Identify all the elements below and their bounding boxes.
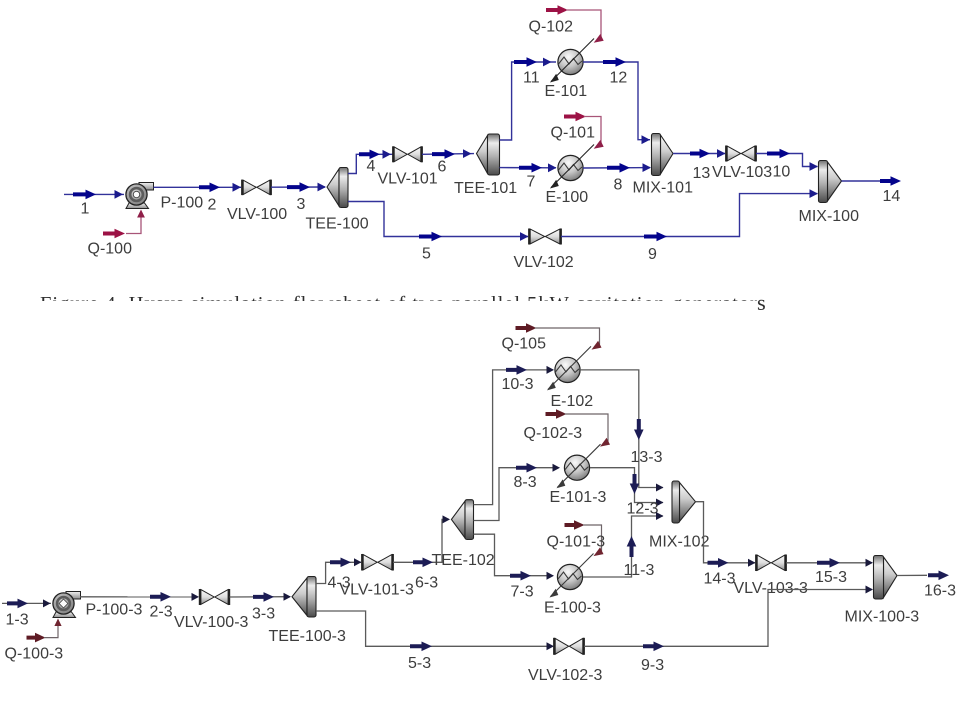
svg-text:E-102: E-102 (551, 393, 594, 410)
wire stream 16-3 out of MIX-100-3 (897, 574, 927, 576)
stream 13-3 arrowhead (656, 484, 664, 492)
stream 3 arrow (287, 182, 310, 192)
svg-text:Q-100-3: Q-100-3 (5, 646, 64, 663)
stream 6 arrowhead (463, 149, 472, 158)
stream 7-3 arrow (510, 571, 531, 581)
svg-text:7: 7 (527, 174, 536, 191)
stream 8-3 arrowhead (553, 464, 561, 472)
stream 4 arrowhead (383, 150, 392, 159)
svg-text:10-3: 10-3 (502, 376, 534, 393)
svg-text:E-100-3: E-100-3 (544, 600, 601, 617)
wire stream 7-3 TEE-102 to E-100-3 (474, 534, 554, 576)
stream 5 arrowhead (520, 232, 529, 241)
wire stream 5 TEE-100 to VLV-102 (348, 202, 528, 237)
valve VLV-103-3 (757, 555, 771, 570)
stream 3-3 arrowhead (284, 593, 292, 601)
wire stream 9 VLV-102 to MIX-100 (561, 194, 818, 237)
valve VLV-102 (530, 229, 545, 244)
stream 13 arrow (690, 149, 710, 159)
energy stream Q-101 (564, 112, 586, 122)
wire stream 8 E-100 to MIX-101 (583, 167, 650, 169)
svg-text:VLV-101-3: VLV-101-3 (340, 582, 415, 599)
svg-text:7-3: 7-3 (511, 584, 534, 601)
stream 13 arrowhead (717, 149, 726, 158)
svg-text:TEE-100: TEE-100 (306, 216, 369, 233)
wire Q-100 into pump (126, 212, 141, 234)
stream 11-3 arrow up (627, 536, 637, 557)
Q-100 arrowhead up (137, 210, 145, 218)
stream 3 arrowhead (318, 183, 327, 192)
svg-text:3-3: 3-3 (252, 606, 275, 623)
wire stream 13 MIX-101 to VLV-103 (673, 153, 725, 155)
stream 1 arrowhead at pump (115, 190, 124, 199)
stream 12 arrowhead (642, 135, 651, 144)
wire stream 3-3 VLV-100-3 to TEE-100-3 (230, 596, 291, 598)
heat exchanger E-101 (558, 49, 583, 74)
heat exchanger E-102 (555, 357, 580, 382)
svg-text:16-3: 16-3 (924, 583, 956, 600)
stream 9 arrowhead (810, 189, 819, 198)
svg-text:11-3: 11-3 (624, 562, 655, 579)
stream 10 arrow (767, 149, 790, 159)
svg-text:Q-101: Q-101 (551, 125, 596, 142)
stream 8-3 arrow (516, 463, 537, 473)
stream 6 arrow (432, 149, 455, 159)
stream 6-3 arrow (413, 558, 433, 568)
wire stream 1 into pump (64, 193, 124, 195)
stream 9-3 arrowhead (866, 586, 874, 594)
wire stream 13-3 E-102 to MIX-102 (580, 370, 663, 488)
wire stream 14 out of MIX-100 (842, 180, 881, 182)
pump P-100-3 (66, 592, 81, 600)
energy stream Q-105 (516, 323, 537, 333)
heat exchanger E-100-3 (557, 564, 582, 589)
mixer MIX-102 (680, 483, 696, 522)
valve VLV-100-3 (201, 590, 214, 605)
svg-text:VLV-101: VLV-101 (378, 171, 438, 188)
energy stream Q-101-3 (565, 520, 585, 530)
svg-text:15-3: 15-3 (815, 569, 847, 586)
svg-text:8: 8 (614, 177, 623, 194)
svg-text:P-100-3: P-100-3 (86, 602, 143, 619)
svg-text:6-3: 6-3 (415, 575, 438, 592)
svg-text:VLV-102-3: VLV-102-3 (528, 667, 603, 684)
svg-text:2: 2 (208, 197, 217, 214)
wire stream 6 VLV-101 to TEE-101 (422, 153, 474, 156)
valve VLV-101-3 (363, 555, 377, 570)
mixer MIX-100-3 (884, 557, 898, 598)
stream 14 arrow (880, 176, 901, 186)
svg-text:6: 6 (438, 159, 447, 176)
stream 1 arrow (73, 190, 96, 200)
valve VLV-101 (394, 147, 407, 162)
wire stream 7 TEE-101 to E-100 (500, 167, 557, 169)
svg-text:E-100: E-100 (546, 189, 589, 206)
svg-text:11: 11 (523, 70, 540, 87)
wire stream 4-3 TEE-100-3 to VLV-101-3 (316, 562, 361, 583)
stream 1-3 arrowhead (43, 599, 51, 607)
wire Q-100-3 into pump (44, 621, 58, 638)
wire stream 12-3 E-101-3 to MIX-102 (590, 468, 663, 503)
energy stream Q-100-3 arrow (27, 633, 46, 643)
wire stream 6-3 VLV-101-3 to TEE-102 (393, 519, 449, 562)
stream 15-3 arrowhead (866, 559, 874, 567)
stream 9-3 arrow (643, 642, 664, 652)
stream 5-3 arrowhead (547, 642, 555, 650)
stream 8 arrow (607, 163, 630, 173)
stream 10-3 arrow (506, 365, 527, 375)
stream 1-3 arrow (7, 599, 28, 609)
svg-text:12: 12 (610, 70, 628, 87)
svg-text:MIX-101: MIX-101 (633, 180, 694, 197)
svg-text:TEE-101: TEE-101 (454, 180, 517, 197)
wire stream 11-3 E-100-3 to MIX-102 (583, 516, 663, 577)
svg-text:1-3: 1-3 (6, 612, 29, 629)
stream 16-3 arrow (928, 571, 949, 581)
stream 2-3 arrow (150, 592, 171, 602)
stream 9 arrow (644, 232, 667, 242)
stream 8 arrowhead (643, 163, 652, 172)
svg-text:TEE-102: TEE-102 (432, 552, 495, 569)
svg-text:5-3: 5-3 (408, 655, 431, 672)
svg-text:VLV-103-3: VLV-103-3 (734, 580, 809, 597)
stream 7-3 arrowhead (547, 572, 555, 580)
svg-text:P-100: P-100 (161, 195, 204, 212)
wire stream 2-3 pump to VLV-100-3 (80, 596, 198, 598)
svg-text:14-3: 14-3 (704, 571, 736, 588)
stream 10 arrowhead (810, 162, 819, 171)
stream 6-3 arrowhead (443, 515, 451, 523)
valve VLV-100 (243, 180, 256, 194)
svg-text:8-3: 8-3 (514, 474, 537, 491)
tee TEE-100-3 (292, 578, 307, 616)
svg-text:3: 3 (297, 196, 306, 213)
svg-text:9: 9 (648, 246, 657, 263)
svg-text:VLV-100-3: VLV-100-3 (174, 614, 249, 631)
svg-text:Q-102: Q-102 (529, 19, 574, 36)
svg-text:E-101: E-101 (545, 83, 588, 100)
svg-text:TEE-100-3: TEE-100-3 (269, 628, 346, 645)
caption trailing s (757, 290, 766, 316)
mixer MIX-100 (828, 162, 842, 201)
stream 4-3 arrow (330, 558, 351, 568)
Q-100-3 arrowhead up (54, 619, 61, 627)
figure caption (clipped) (40, 293, 785, 301)
heat exchanger E-100 (558, 155, 583, 180)
stream 11 arrowhead (543, 58, 552, 67)
svg-text:VLV-100: VLV-100 (227, 206, 287, 223)
stream 12-3 arrow down (630, 474, 640, 494)
stream 15-3 arrow (817, 558, 840, 568)
wire stream 11 TEE-101 to E-101 (500, 62, 557, 140)
svg-text:1: 1 (81, 201, 90, 218)
svg-text:MIX-100-3: MIX-100-3 (845, 609, 920, 626)
stream 5 arrow (419, 232, 442, 242)
wire stream 10 VLV-103 to MIX-100 (756, 154, 818, 167)
wire stream 1-3 into pump P-100-3 (2, 602, 51, 604)
wire stream 4 TEE-100 to VLV-101 (348, 154, 393, 173)
energy stream Q-102 (546, 5, 568, 15)
stream 14-3 arrowhead (748, 559, 756, 567)
stream 2-3 arrowhead (192, 593, 200, 601)
stream 4-3 arrowhead (354, 558, 362, 566)
energy stream Q-100 arrow (103, 229, 125, 239)
valve VLV-103 (727, 146, 741, 161)
heat exchanger E-101-3 (564, 455, 589, 480)
stream 11-3 arrowhead (656, 512, 664, 520)
stream 7 arrow (519, 163, 542, 173)
svg-text:12-3: 12-3 (627, 501, 659, 518)
stream 11 arrow (514, 57, 537, 67)
svg-text:5: 5 (422, 246, 431, 263)
stream 13-3 arrow down (634, 419, 644, 440)
svg-text:E-101-3: E-101-3 (550, 489, 607, 506)
wire stream 15-3 VLV-103-3 to MIX-100-3 (786, 562, 872, 564)
tee TEE-100 (327, 169, 339, 206)
svg-text:Q-101-3: Q-101-3 (547, 534, 606, 551)
svg-text:14: 14 (883, 188, 901, 205)
svg-text:VLV-103: VLV-103 (712, 164, 772, 181)
stream 7 arrowhead (548, 163, 557, 172)
mixer MIX-101 (661, 135, 674, 174)
stream 10-3 arrowhead (547, 366, 555, 374)
wire stream 9-3 VLV-102-3 to MIX-100-3 (584, 590, 872, 647)
svg-text:9-3: 9-3 (641, 657, 664, 674)
svg-text:10: 10 (773, 164, 791, 181)
svg-text:Q-100: Q-100 (88, 241, 133, 258)
tee TEE-102 (451, 501, 465, 538)
svg-text:VLV-102: VLV-102 (514, 254, 574, 271)
stream 5-3 arrow (410, 642, 432, 652)
wire stream 2 pump to VLV-100 (154, 186, 242, 188)
wire stream 8-3 TEE-102 to E-101-3 (474, 468, 554, 521)
stream 12-3 arrowhead (656, 499, 664, 507)
wire stream 12 E-101 to MIX-101 (583, 62, 650, 140)
wire stream 3 VLV-100 to TEE-100 (271, 186, 325, 188)
wire stream 14-3 MIX-102 to VLV-103-3 (696, 502, 756, 563)
stream 2 arrowhead (233, 183, 242, 192)
stream 2 arrow (199, 183, 220, 193)
svg-text:MIX-102: MIX-102 (649, 534, 710, 551)
stream 12 arrow (603, 57, 626, 67)
energy stream Q-102-3 (546, 409, 567, 419)
svg-text:4: 4 (367, 158, 376, 175)
svg-text:13: 13 (693, 165, 711, 182)
svg-text:Q-102-3: Q-102-3 (524, 425, 583, 442)
svg-text:Q-105: Q-105 (502, 336, 547, 353)
valve VLV-102-3 (555, 638, 569, 654)
stream 14-3 arrow (708, 558, 729, 568)
tee TEE-101 (477, 136, 488, 174)
pump P-100 (139, 183, 154, 191)
stream 4 arrow (359, 150, 380, 160)
wire stream 5-3 TEE-100-3 to VLV-102-3 (316, 611, 553, 646)
svg-text:2-3: 2-3 (150, 604, 173, 621)
wire stream 10-3 TEE-102 to E-102 (474, 370, 554, 505)
svg-text:13-3: 13-3 (631, 449, 663, 466)
svg-text:MIX-100: MIX-100 (799, 208, 860, 225)
stream 3-3 arrow (253, 592, 274, 602)
